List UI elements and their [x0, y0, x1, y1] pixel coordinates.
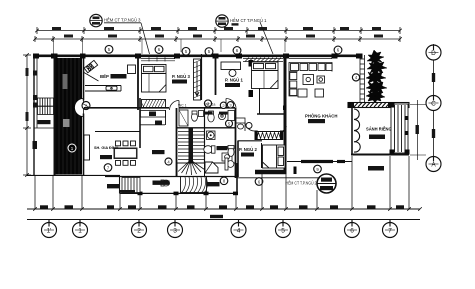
svg-text:P. NGỦ 1: P. NGỦ 1: [225, 77, 243, 82]
label below sanh rieng: [368, 166, 384, 171]
extension lines to bottom dimension: [35, 156, 409, 209]
svg-text:5: 5: [281, 228, 285, 235]
wall bedroom3 right / hall: [201, 54, 203, 100]
living room sofa set: [289, 63, 332, 98]
grid bubbles right column: [426, 45, 441, 172]
bedroom2 bed (rotated, pillows right): [263, 145, 286, 168]
dimension line top 2: [35, 36, 400, 42]
bottom area tag circles: [104, 164, 112, 172]
window tag circles top row: [105, 45, 342, 55]
dimension line bottom 1: [27, 208, 420, 210]
living room bottom wall: [287, 161, 352, 163]
bedroom3 dresser hatched: [142, 100, 166, 108]
bedroom2 top wall: [238, 140, 262, 142]
column blocks top wall: [33, 54, 363, 59]
wing partition line: [34, 127, 55, 129]
bottom wall left section: [27, 174, 120, 176]
kitchen counter bottom: [85, 86, 121, 92]
bedroom2 WC fixtures: [225, 146, 234, 171]
SH GIA DINH right wall: [139, 98, 141, 148]
svg-text:P. NGỦ 2: P. NGỦ 2: [239, 147, 257, 152]
wall kitchen/bed3: [137, 54, 139, 110]
callout circle 3: [317, 174, 336, 193]
svg-text:D: D: [431, 50, 436, 57]
bedroom1 stool: [229, 70, 236, 77]
bedroom2 WC partition: [261, 143, 263, 168]
svg-text:BẾP: BẾP: [100, 74, 109, 79]
svg-text:7: 7: [388, 228, 392, 235]
grid bubbles bottom row: [42, 220, 398, 238]
strip right wall: [83, 58, 85, 101]
leader line callout 2: [260, 22, 273, 54]
corridor door arc bed2: [245, 122, 255, 132]
fridge: [128, 65, 136, 74]
wall bedroom1 right: [284, 54, 287, 174]
right vertical dim line: [410, 100, 426, 160]
bedroom1 bottom wall: [257, 113, 286, 115]
central core outer walls: [176, 108, 178, 176]
top wall window sill lines bedroom1 with louver hatch: [243, 58, 283, 60]
wall top of SH GIA DINH: [95, 131, 140, 133]
right grid line: [433, 44, 435, 171]
svg-text:3: 3: [173, 228, 177, 235]
svg-text:C: C: [431, 101, 436, 108]
railing tag circle: [352, 74, 359, 81]
core stair: [178, 129, 204, 164]
SH GIA DINH dining table: [114, 141, 137, 165]
overall dim text blob: [210, 215, 223, 218]
svg-text:SH. GIA ĐÌNH: SH. GIA ĐÌNH: [94, 145, 119, 150]
sanh rieng top hatched wall: [348, 102, 409, 108]
callout circle 2 (HEM CT T.P.NGU 1): [216, 15, 267, 27]
callout circle 1 (HEM CT T.P.NGU 3): [90, 14, 141, 26]
wing divider wall: [54, 54, 56, 175]
wardrobe zigzag strip bed2: [255, 131, 284, 141]
sanh rieng right stair: [390, 103, 410, 155]
carport ghost label lower: [63, 119, 70, 127]
svg-text:HẺM CT T.P.NGỦ 3: HẺM CT T.P.NGỦ 3: [104, 18, 141, 23]
svg-text:1: 1: [78, 228, 82, 235]
svg-text:SẢNH RIÊNG: SẢNH RIÊNG: [366, 127, 392, 132]
svg-text:WC 1: WC 1: [178, 103, 187, 107]
hall door tag circle: [204, 100, 211, 107]
hall label blob: [152, 150, 165, 154]
tag circle corridor right: [226, 120, 233, 127]
right grid dim text blobs: [432, 73, 435, 138]
hall tag circle: [165, 158, 172, 165]
top wall window sill lines bedroom3: [141, 58, 175, 60]
bedroom2 left wall: [237, 141, 239, 178]
rounded wall corner: [280, 126, 286, 132]
dimension line top 1: [37, 27, 400, 34]
grid extension ticks below dim line 2: [54, 39, 286, 54]
core top bathroom fixtures: [179, 110, 235, 126]
carport ghost label upper: [63, 74, 68, 89]
svg-text:HẺM CT T.P.NGỦ 2: HẺM CT T.P.NGỦ 2: [286, 180, 317, 185]
left wall text blobs: [33, 71, 38, 150]
bedroom1 bed: [252, 62, 279, 89]
svg-text:1': 1': [47, 228, 52, 235]
left exterior wall: [33, 54, 35, 175]
core lower-right bathroom fixtures: [204, 131, 232, 161]
sanh rieng left wall: [351, 103, 353, 156]
dimension text blobs line 1: [52, 27, 381, 30]
sanh rieng bottom wall: [351, 154, 409, 156]
entry steps: [122, 178, 140, 193]
bottom area labels: [107, 181, 220, 189]
white tag circle on strip: [68, 144, 76, 152]
curved hatch ramp below core: [181, 177, 208, 193]
stair label CT+0.45: [38, 120, 51, 124]
sanh rieng scalloped glass wall: [354, 109, 360, 152]
bottom wall mid upper: [105, 176, 237, 178]
bedroom3 wardrobe hatched strip: [194, 59, 201, 100]
tag circle near door: [82, 102, 90, 110]
core dark dashes top band: [205, 112, 228, 115]
top wall main: [33, 54, 360, 57]
WC sink left of corridor: [236, 118, 245, 123]
hatched block below bedroom3: [141, 110, 166, 125]
dim text blobs bottom 1: [40, 205, 404, 208]
svg-text:P. NGỦ 3: P. NGỦ 3: [172, 74, 190, 79]
svg-text:2: 2: [137, 228, 141, 235]
door tag circle: [246, 123, 252, 129]
tag circle left of hem2: [255, 178, 263, 186]
dimension text blobs line 2: [64, 35, 383, 38]
wall bedroom1 left: [215, 54, 217, 95]
left dimension line: [23, 53, 31, 177]
kitchen stove diagonal: [84, 60, 98, 72]
svg-text:4: 4: [237, 228, 241, 235]
leader line callout 1: [141, 23, 150, 54]
toilet under entry steps: [161, 180, 170, 186]
bedroom3 bed: [142, 65, 167, 93]
railing right of living room: [360, 55, 365, 102]
top wall window sill living room: [289, 58, 332, 60]
bedroom1 desk: [221, 62, 241, 70]
svg-text:HẺM CT T.P.NGỦ 1: HẺM CT T.P.NGỦ 1: [230, 18, 267, 23]
bedroom1 nightstands: [249, 60, 254, 97]
carport dark hatched strip: [56, 58, 83, 175]
bedroom3 door arc: [170, 101, 180, 111]
planter trees: [366, 50, 387, 103]
white door panel rect right of strip: [84, 135, 90, 160]
white door arc on carport strip: [75, 99, 84, 117]
svg-text:WC 1a: WC 1a: [205, 103, 215, 107]
small text above bottom dim: [120, 190, 135, 193]
svg-text:6: 6: [350, 228, 354, 235]
bottom wall mid lower: [120, 192, 238, 194]
kitchen counter diagonal edge: [84, 73, 99, 82]
ground line right section: [237, 177, 320, 179]
corridor door arc bed1: [226, 99, 236, 109]
svg-text:PHÒNG KHÁCH: PHÒNG KHÁCH: [305, 113, 337, 118]
svg-text:A: A: [431, 162, 436, 169]
left wing stairs: [38, 98, 54, 115]
bedroom2 bottom thick wall: [255, 170, 286, 175]
door tick on living bottom wall: [294, 167, 297, 175]
winder stair fan: [177, 160, 218, 176]
dimension line bottom 2: [27, 219, 420, 221]
corridor wall below kitchen-bed3: [84, 107, 169, 109]
small tag circle above callout3: [314, 165, 322, 173]
